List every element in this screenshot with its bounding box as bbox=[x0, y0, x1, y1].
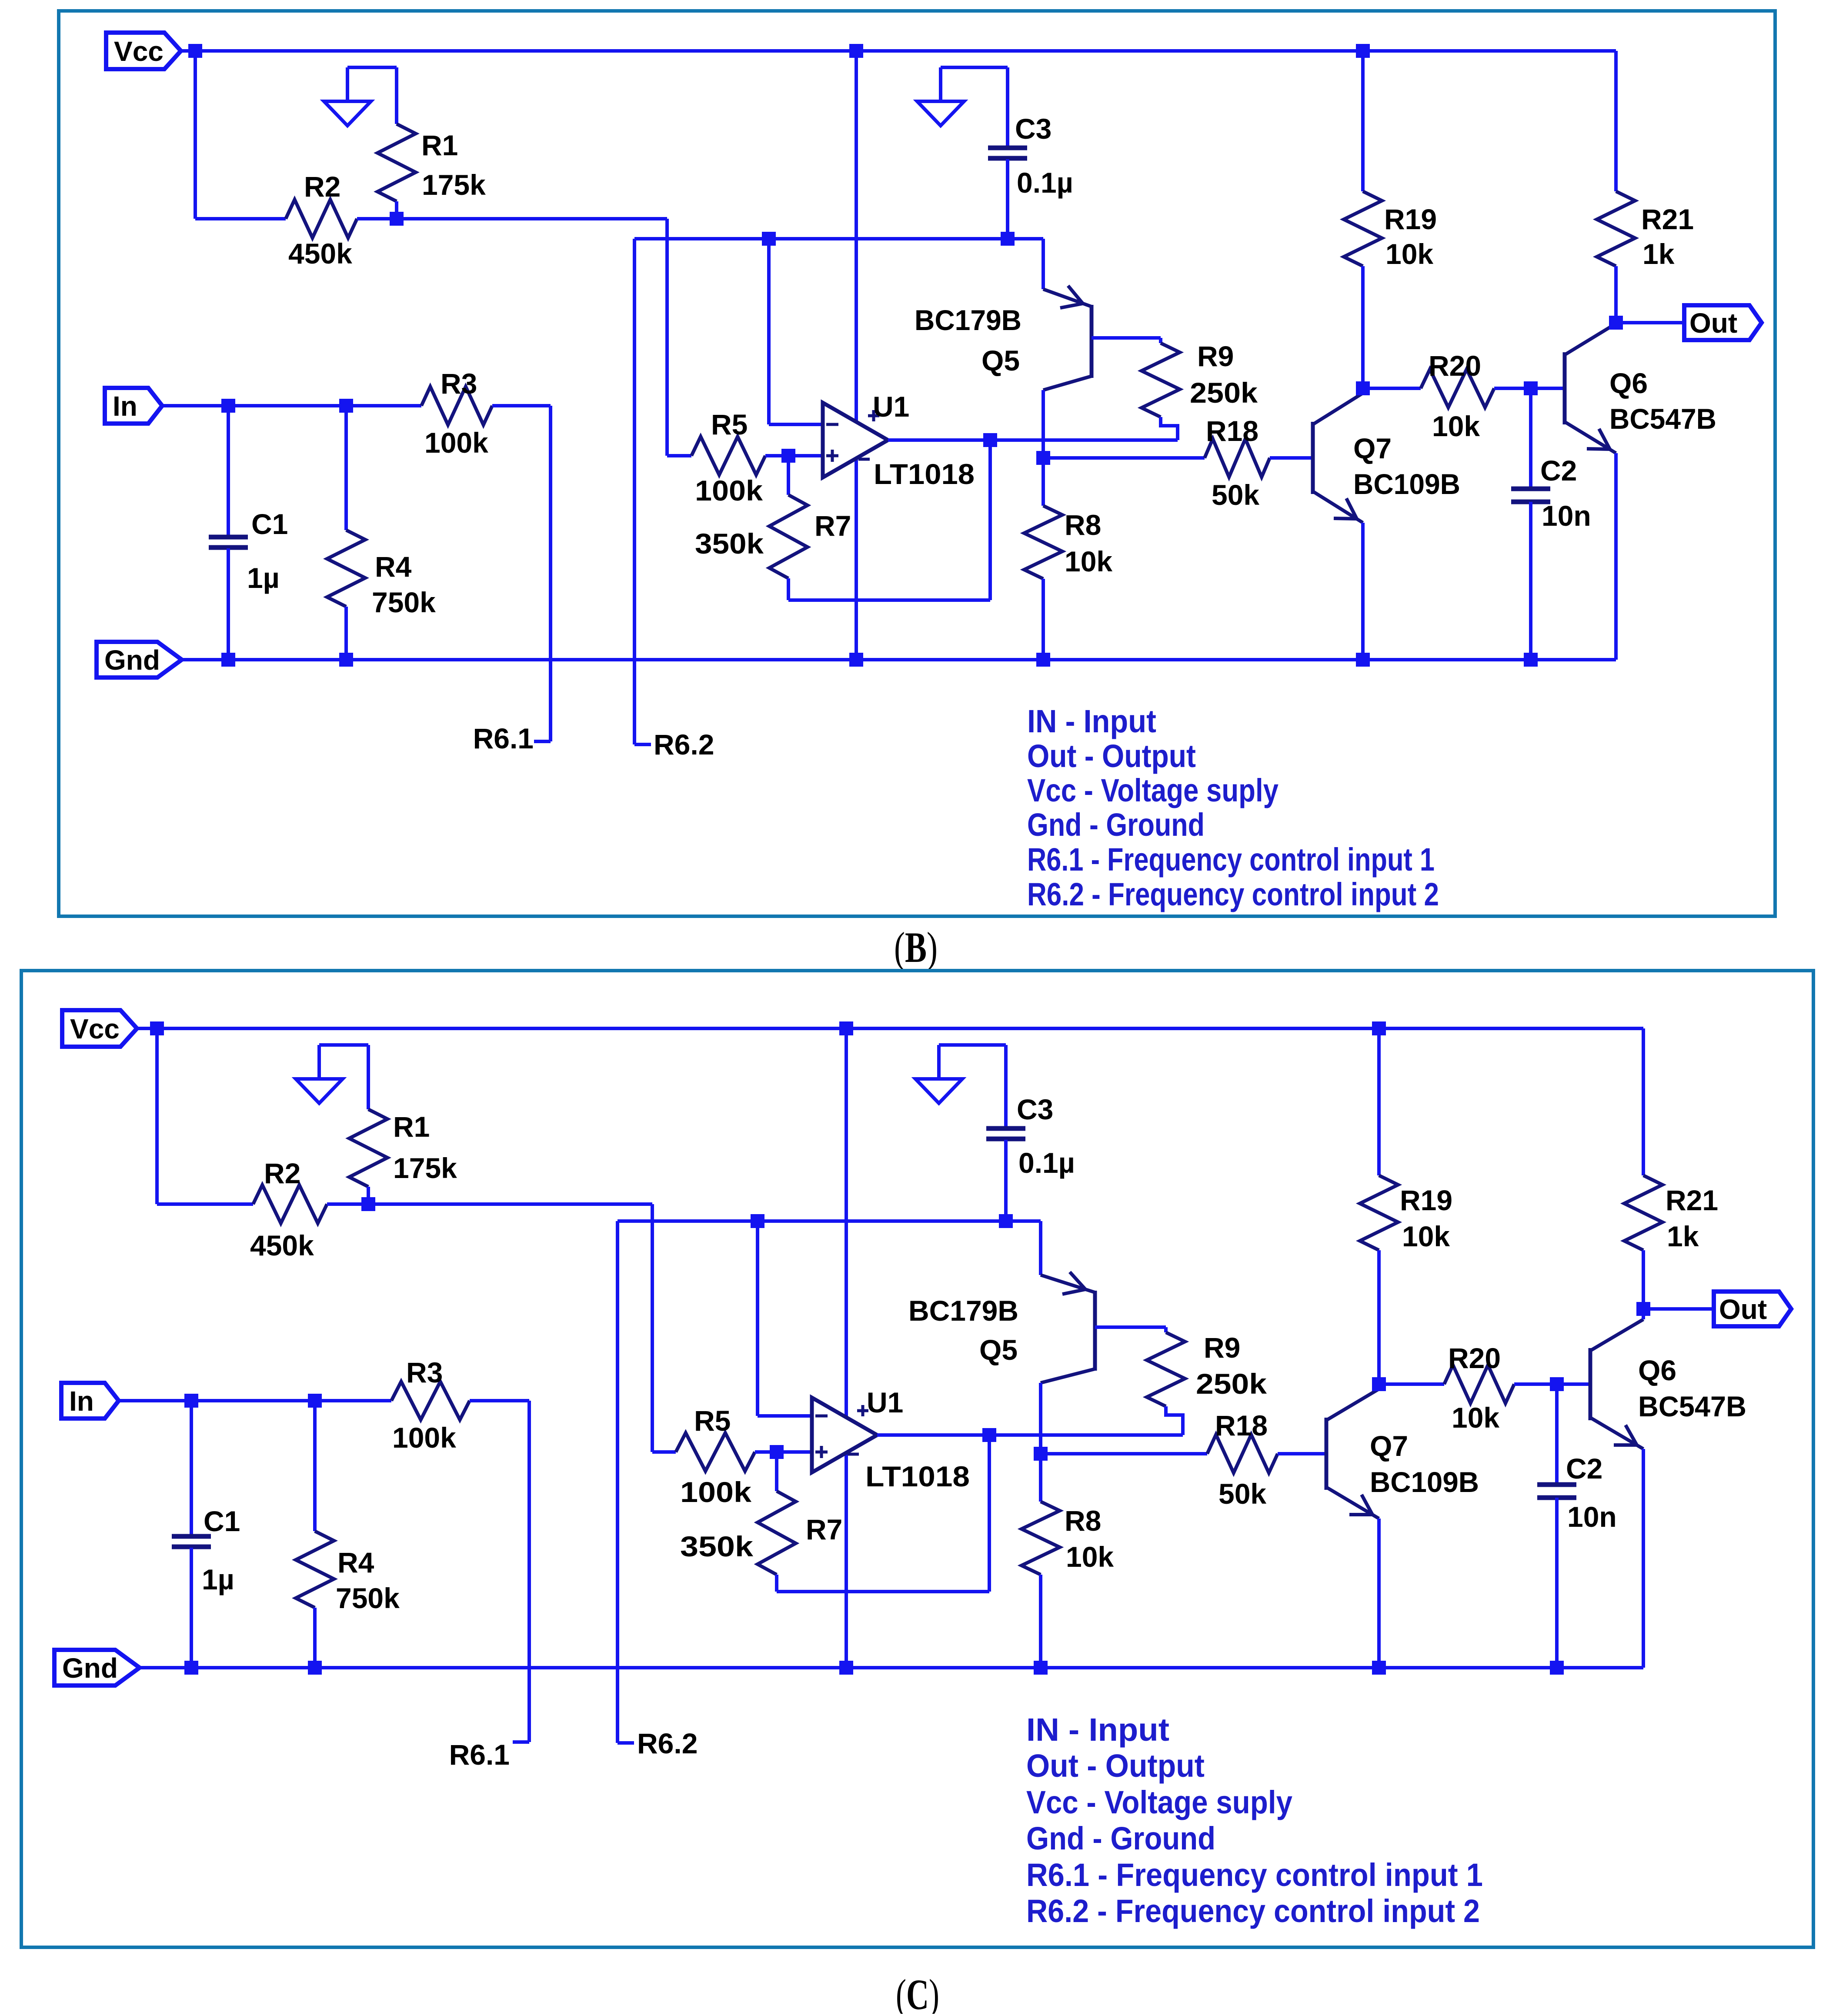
transistor Q5 BC179B bbox=[1090, 305, 1094, 378]
wire Q7 collector up bbox=[1377, 1384, 1381, 1389]
junction Q7 emitter / ground bbox=[1356, 653, 1370, 667]
junction rail2 / C3 bbox=[1001, 232, 1015, 246]
net flag Vcc bbox=[106, 33, 181, 69]
svg-text:LT1018: LT1018 bbox=[865, 1460, 970, 1492]
svg-text:U1: U1 bbox=[873, 391, 909, 423]
wire C3 bottom lead bbox=[1004, 1140, 1008, 1221]
svg-text:Gnd: Gnd bbox=[62, 1652, 118, 1684]
net flag Vcc bbox=[62, 1010, 137, 1047]
arrow symbol above C3 bbox=[915, 1045, 1006, 1103]
wire C2 bottom lead bbox=[1555, 1498, 1559, 1668]
wire R2 to corner bbox=[327, 1202, 652, 1206]
svg-text:Q7: Q7 bbox=[1370, 1430, 1408, 1462]
svg-text:R3: R3 bbox=[406, 1356, 443, 1389]
capacitor C1 bbox=[209, 537, 248, 547]
net flag In bbox=[105, 388, 162, 424]
op-amp U1 LT1018 bbox=[823, 403, 888, 477]
wire arrow to R1 bbox=[395, 67, 398, 124]
svg-text:LT1018: LT1018 bbox=[874, 458, 975, 490]
resistor R7 bbox=[769, 495, 808, 578]
wire Vcc top rail bbox=[181, 49, 1616, 53]
svg-text:C3: C3 bbox=[1017, 1093, 1053, 1125]
svg-text:R18: R18 bbox=[1206, 415, 1258, 447]
wire inverting input vertical bbox=[756, 1221, 759, 1416]
svg-text:350k: 350k bbox=[695, 527, 764, 560]
net flag Gnd bbox=[97, 642, 182, 678]
svg-text:BC109B: BC109B bbox=[1353, 468, 1460, 500]
svg-text:C1: C1 bbox=[204, 1505, 240, 1537]
svg-text:R7: R7 bbox=[815, 510, 851, 542]
wire R6.1 vertical bbox=[527, 1401, 531, 1742]
wire feedback up to output bbox=[988, 440, 992, 600]
svg-text:Q5: Q5 bbox=[979, 1334, 1018, 1366]
svg-text:100k: 100k bbox=[392, 1422, 456, 1454]
svg-text:10k: 10k bbox=[1065, 545, 1112, 577]
svg-text:R19: R19 bbox=[1384, 203, 1437, 235]
wire R21 top lead bbox=[1614, 51, 1618, 191]
wire C3 bottom lead bbox=[1006, 159, 1009, 239]
junction R2/R1 node bbox=[390, 212, 404, 226]
svg-text:50k: 50k bbox=[1218, 1478, 1266, 1510]
svg-text:In: In bbox=[69, 1385, 94, 1417]
transistor Q5 BC179B bbox=[1093, 1291, 1097, 1371]
svg-text:R19: R19 bbox=[1400, 1184, 1452, 1216]
svg-text:R21: R21 bbox=[1641, 203, 1694, 235]
junction Vcc rail / left drop bbox=[150, 1021, 164, 1035]
wire to R2 bbox=[157, 1202, 253, 1206]
wire C2 top lead bbox=[1555, 1384, 1559, 1485]
wire to Out flag bbox=[1616, 321, 1684, 324]
resistor R9 bbox=[1142, 343, 1180, 417]
resistor R18 bbox=[1207, 1435, 1278, 1473]
svg-text:R8: R8 bbox=[1065, 509, 1101, 541]
wire R7 top lead bbox=[787, 456, 790, 495]
wire to R18 bbox=[1043, 456, 1205, 460]
svg-text:R6.2 - Frequency control input: R6.2 - Frequency control input 2 bbox=[1026, 1893, 1480, 1929]
wire R7 top lead bbox=[775, 1452, 778, 1491]
svg-text:R4: R4 bbox=[375, 551, 412, 583]
resistor R2 bbox=[286, 200, 357, 238]
svg-text:BC547B: BC547B bbox=[1609, 403, 1716, 435]
wire R6.2 vertical bbox=[633, 239, 636, 744]
wire to Out flag bbox=[1643, 1307, 1714, 1311]
junction Q5 collector / R8 / R18 bbox=[1036, 451, 1050, 465]
wire R9 top lead bbox=[1159, 338, 1162, 343]
svg-text:350k: 350k bbox=[680, 1530, 753, 1562]
wire R4 top lead bbox=[344, 406, 348, 530]
junction feedback / output bbox=[983, 433, 997, 447]
junction C1 / ground bbox=[184, 1661, 198, 1675]
wire to R18 bbox=[1041, 1452, 1207, 1455]
wire Vcc top rail bbox=[137, 1027, 1643, 1030]
svg-text:R5: R5 bbox=[694, 1405, 731, 1437]
wire R6.2 tick bbox=[618, 1741, 634, 1745]
wire Q6 emitter down bbox=[1614, 453, 1618, 660]
svg-text:50k: 50k bbox=[1212, 479, 1259, 511]
svg-text:R9: R9 bbox=[1204, 1332, 1240, 1364]
svg-text:R6.2: R6.2 bbox=[637, 1727, 698, 1759]
svg-text:R1: R1 bbox=[421, 129, 458, 161]
svg-text:R8: R8 bbox=[1065, 1505, 1101, 1537]
svg-text:Q7: Q7 bbox=[1353, 432, 1392, 464]
wire R19 top lead bbox=[1361, 51, 1365, 191]
wire R19 bottom lead bbox=[1361, 266, 1365, 388]
wire R6.1 vertical bbox=[549, 406, 552, 741]
resistor R21 bbox=[1597, 191, 1635, 266]
wire R4 bottom lead bbox=[313, 1608, 317, 1668]
wire R6.2 tick bbox=[634, 743, 651, 746]
wire R21 top lead bbox=[1642, 1028, 1645, 1175]
resistor R7 bbox=[758, 1491, 796, 1575]
transistor Q6 BC547B bbox=[1563, 352, 1567, 424]
wire Q7 collector up bbox=[1361, 388, 1365, 393]
wire op-amp output bbox=[888, 438, 1178, 442]
junction R20 / C2 / Q6 base bbox=[1524, 381, 1538, 395]
wire R7 bottom lead bbox=[775, 1575, 778, 1592]
svg-text:0.1µ: 0.1µ bbox=[1018, 1147, 1075, 1179]
wire Q6 collector up bbox=[1642, 1309, 1645, 1319]
wire R6.2 vertical bbox=[616, 1221, 619, 1743]
wire ground rail bbox=[182, 658, 1616, 661]
wire In row bbox=[119, 1399, 391, 1402]
svg-text:10n: 10n bbox=[1567, 1501, 1617, 1533]
resistor R8 bbox=[1021, 1502, 1060, 1575]
wire R20 to Q6 base bbox=[1514, 1382, 1590, 1386]
svg-text:175k: 175k bbox=[393, 1152, 457, 1184]
wire corner down to R5 row bbox=[665, 219, 669, 456]
junction Q7 emitter / ground bbox=[1372, 1661, 1386, 1675]
wire R3 to corner bbox=[492, 404, 551, 407]
resistor R20 bbox=[1421, 369, 1494, 407]
junction rail2 / C3 bbox=[999, 1214, 1013, 1228]
wire C2 top lead bbox=[1529, 388, 1532, 489]
svg-text:R1: R1 bbox=[393, 1111, 430, 1143]
net flag Out bbox=[1714, 1292, 1791, 1326]
svg-text:Q6: Q6 bbox=[1609, 367, 1648, 399]
capacitor C2 bbox=[1537, 1485, 1576, 1498]
wire R19 top lead bbox=[1377, 1028, 1381, 1175]
junction In / C1 bbox=[184, 1394, 198, 1408]
wire R3 to corner bbox=[470, 1399, 529, 1402]
junction R2/R1 node bbox=[361, 1197, 375, 1211]
svg-text:450k: 450k bbox=[288, 237, 352, 270]
wire inverting input vertical bbox=[767, 239, 771, 424]
svg-text:R7: R7 bbox=[806, 1513, 842, 1545]
svg-text:1µ: 1µ bbox=[202, 1563, 234, 1595]
resistor R3 bbox=[391, 1382, 470, 1420]
wire to R5 bbox=[667, 454, 691, 457]
svg-text:BC179B: BC179B bbox=[915, 304, 1021, 336]
wire feedback bottom bbox=[777, 1590, 989, 1593]
wire In row bbox=[162, 404, 421, 407]
junction op-amp supply / ground bbox=[839, 1661, 853, 1675]
svg-text:(C): (C) bbox=[896, 1970, 939, 2014]
svg-text:IN - Input: IN - Input bbox=[1026, 1712, 1169, 1748]
resistor R2 bbox=[253, 1185, 327, 1223]
wire Q5 base to R9 bbox=[1095, 1325, 1166, 1329]
junction rail2 / inverting input drop bbox=[751, 1214, 764, 1228]
junction C2 / ground bbox=[1550, 1661, 1564, 1675]
svg-text:1µ: 1µ bbox=[247, 562, 280, 594]
junction In / C1 bbox=[221, 399, 235, 413]
svg-text:Vcc: Vcc bbox=[70, 1013, 120, 1045]
svg-text:Out: Out bbox=[1689, 307, 1737, 339]
capacitor C3 bbox=[986, 1128, 1025, 1139]
capacitor C1 bbox=[172, 1536, 211, 1547]
svg-text:1k: 1k bbox=[1667, 1220, 1699, 1252]
wire Q6 emitter down bbox=[1642, 1449, 1645, 1668]
resistor R21 bbox=[1624, 1175, 1662, 1250]
junction R21 / Out bbox=[1636, 1302, 1650, 1316]
wire Q5 emitter vertical bbox=[1039, 1221, 1042, 1275]
wire to R20 bbox=[1363, 387, 1421, 390]
wire Vcc drop to R2 row bbox=[155, 1028, 159, 1204]
svg-text:BC547B: BC547B bbox=[1638, 1390, 1746, 1422]
capacitor C3 bbox=[988, 148, 1027, 158]
svg-text:R6.2 - Frequency control input: R6.2 - Frequency control input 2 bbox=[1027, 876, 1439, 912]
svg-text:10k: 10k bbox=[1452, 1402, 1499, 1434]
wire feedback bottom bbox=[788, 598, 990, 602]
wire R20 to Q6 base bbox=[1494, 387, 1565, 390]
resistor R1 bbox=[349, 1109, 387, 1187]
junction R5/R7 node bbox=[781, 449, 795, 463]
svg-text:0.1µ: 0.1µ bbox=[1017, 167, 1073, 199]
wire C1 bottom lead bbox=[227, 548, 230, 660]
resistor R1 bbox=[377, 124, 416, 201]
svg-text:R18: R18 bbox=[1215, 1409, 1268, 1442]
wire R4 bottom lead bbox=[344, 607, 348, 660]
junction Vcc rail / R19 bbox=[1356, 44, 1370, 58]
wire R9 bottom jog bbox=[1161, 417, 1178, 440]
svg-text:Out - Output: Out - Output bbox=[1026, 1748, 1205, 1784]
svg-text:175k: 175k bbox=[422, 169, 486, 201]
wire R5 to non-inverting input bbox=[765, 454, 823, 457]
svg-text:C2: C2 bbox=[1540, 454, 1577, 487]
svg-text:R2: R2 bbox=[304, 170, 340, 203]
resistor R8 bbox=[1024, 506, 1062, 579]
junction Q5 collector / R8 / R18 bbox=[1034, 1447, 1048, 1461]
net flag Out bbox=[1684, 305, 1762, 340]
resistor R18 bbox=[1205, 439, 1270, 477]
svg-text:R6.1: R6.1 bbox=[473, 722, 534, 754]
junction R5/R7 node bbox=[770, 1445, 784, 1459]
resistor R5 bbox=[676, 1433, 755, 1471]
wire rail to C3 and Q5 bbox=[634, 237, 1043, 240]
svg-text:Gnd - Ground: Gnd - Ground bbox=[1026, 1820, 1215, 1856]
svg-text:C1: C1 bbox=[251, 508, 288, 540]
svg-text:450k: 450k bbox=[250, 1229, 314, 1262]
wire C1 top lead bbox=[190, 1401, 193, 1536]
transistor Q7 BC109B bbox=[1311, 422, 1315, 494]
wire corner down to R5 row bbox=[651, 1204, 654, 1452]
wire to inverting input bbox=[758, 1414, 812, 1418]
svg-text:C3: C3 bbox=[1015, 113, 1052, 145]
wire C3 top lead bbox=[1004, 1045, 1008, 1128]
junction Vcc rail / left drop bbox=[188, 44, 202, 58]
transistor Q6 BC547B bbox=[1589, 1348, 1592, 1420]
wire to R20 bbox=[1379, 1382, 1444, 1386]
junction C2 / ground bbox=[1524, 653, 1538, 667]
svg-text:10k: 10k bbox=[1402, 1220, 1450, 1252]
wire R8 bottom lead bbox=[1039, 1575, 1042, 1668]
svg-text:10k: 10k bbox=[1066, 1541, 1114, 1573]
svg-text:Vcc - Voltage suply: Vcc - Voltage suply bbox=[1027, 772, 1279, 808]
svg-text:Out - Output: Out - Output bbox=[1027, 738, 1196, 774]
svg-text:Out: Out bbox=[1719, 1294, 1767, 1325]
junction Vcc rail / op-amp supply bbox=[839, 1021, 853, 1035]
wire R8 top lead bbox=[1042, 458, 1045, 506]
svg-text:Q5: Q5 bbox=[981, 344, 1020, 377]
junction C1 / ground bbox=[221, 653, 235, 667]
junction op-amp supply / ground bbox=[849, 653, 863, 667]
svg-text:U1: U1 bbox=[867, 1386, 903, 1419]
resistor R19 bbox=[1360, 1175, 1398, 1250]
svg-text:R4: R4 bbox=[337, 1546, 374, 1579]
arrow symbol above C3 bbox=[917, 67, 1008, 126]
arrow symbol above R1 bbox=[296, 1045, 368, 1103]
svg-text:100k: 100k bbox=[424, 427, 488, 459]
svg-text:R20: R20 bbox=[1429, 350, 1481, 382]
wire Q5 emitter vertical bbox=[1042, 239, 1045, 289]
wire R18 to Q7 base bbox=[1270, 456, 1313, 460]
resistor R20 bbox=[1444, 1365, 1514, 1403]
resistor R19 bbox=[1344, 191, 1382, 266]
junction rail2 / inverting input drop bbox=[762, 232, 776, 246]
wire R7 bottom lead bbox=[787, 578, 790, 600]
junction feedback / output bbox=[982, 1428, 996, 1442]
svg-text:(B): (B) bbox=[894, 923, 938, 971]
svg-text:BC109B: BC109B bbox=[1370, 1466, 1479, 1498]
resistor R4 bbox=[296, 1531, 334, 1608]
wire Q7 emitter down bbox=[1361, 523, 1365, 660]
wire R1 to R2 node bbox=[367, 1187, 370, 1204]
wire C3 top lead bbox=[1006, 67, 1009, 148]
junction R8 / ground rail bbox=[1034, 1661, 1048, 1675]
wire R18 to Q7 base bbox=[1278, 1452, 1326, 1455]
wire feedback up to output bbox=[988, 1435, 991, 1592]
wire R2 to corner bbox=[357, 217, 667, 220]
resistor R5 bbox=[691, 437, 765, 475]
wire to R2 bbox=[195, 217, 286, 220]
op-amp U1 LT1018 bbox=[812, 1398, 877, 1472]
svg-text:R21: R21 bbox=[1666, 1184, 1718, 1216]
svg-text:R6.2: R6.2 bbox=[654, 728, 714, 761]
wire C1 top lead bbox=[227, 406, 230, 537]
junction R4 / ground bbox=[308, 1661, 322, 1675]
capacitor C2 bbox=[1511, 489, 1550, 502]
junction In / R4 bbox=[339, 399, 353, 413]
svg-text:Vcc - Voltage suply: Vcc - Voltage suply bbox=[1026, 1784, 1292, 1820]
resistor R9 bbox=[1147, 1332, 1185, 1406]
wire R4 top lead bbox=[313, 1401, 317, 1531]
svg-text:10k: 10k bbox=[1385, 238, 1433, 270]
svg-text:C2: C2 bbox=[1566, 1452, 1602, 1485]
svg-text:Vcc: Vcc bbox=[114, 36, 164, 67]
svg-text:10k: 10k bbox=[1432, 410, 1480, 442]
wire C1 bottom lead bbox=[190, 1548, 193, 1668]
svg-text:In: In bbox=[113, 391, 137, 422]
wire R19 bottom lead bbox=[1377, 1250, 1381, 1384]
svg-text:R6.1 - Frequency control input: R6.1 - Frequency control input 1 bbox=[1026, 1857, 1483, 1893]
junction R20 / C2 / Q6 base bbox=[1550, 1377, 1564, 1391]
svg-text:R20: R20 bbox=[1448, 1342, 1501, 1374]
wire op-amp supply vertical bbox=[855, 51, 858, 660]
svg-text:R3: R3 bbox=[441, 367, 477, 400]
wire rail to C3 and Q5 bbox=[618, 1219, 1041, 1223]
svg-text:250k: 250k bbox=[1190, 377, 1258, 409]
wire ground rail bbox=[140, 1666, 1643, 1669]
wire R6.1 tick bbox=[513, 1740, 529, 1744]
svg-text:750k: 750k bbox=[372, 586, 436, 618]
svg-text:100k: 100k bbox=[695, 474, 763, 507]
wire R6.1 tick bbox=[534, 740, 551, 743]
svg-text:R9: R9 bbox=[1197, 340, 1234, 372]
resistor R4 bbox=[327, 530, 365, 607]
junction Vcc rail / R19 bbox=[1372, 1021, 1386, 1035]
svg-text:1k: 1k bbox=[1642, 238, 1675, 270]
wire R5 to non-inverting input bbox=[755, 1450, 812, 1454]
svg-text:R6.1 - Frequency control input: R6.1 - Frequency control input 1 bbox=[1027, 841, 1435, 878]
junction R19 / R20 / Q7 collector bbox=[1372, 1377, 1386, 1391]
wire op-amp output bbox=[877, 1433, 1183, 1437]
wire Q5 base to R9 bbox=[1092, 336, 1161, 340]
arrow symbol above R1 bbox=[324, 67, 397, 126]
wire to inverting input bbox=[769, 423, 823, 426]
svg-text:10n: 10n bbox=[1542, 500, 1591, 532]
resistor R3 bbox=[421, 387, 492, 425]
wire to R5 bbox=[652, 1450, 676, 1454]
junction In / R4 bbox=[308, 1394, 322, 1408]
wire arrow to R1 bbox=[367, 1045, 370, 1109]
wire op-amp supply vertical bbox=[845, 1028, 848, 1668]
svg-text:250k: 250k bbox=[1196, 1368, 1267, 1400]
wire Q7 emitter down bbox=[1377, 1519, 1381, 1668]
svg-text:R6.1: R6.1 bbox=[449, 1739, 510, 1771]
transistor Q7 BC109B bbox=[1325, 1418, 1329, 1490]
junction R8 / ground rail bbox=[1036, 653, 1050, 667]
wire R21 bottom lead bbox=[1614, 266, 1618, 323]
svg-text:Q6: Q6 bbox=[1638, 1354, 1676, 1386]
svg-text:Gnd - Ground: Gnd - Ground bbox=[1027, 807, 1205, 843]
wire R8 bottom lead bbox=[1042, 579, 1045, 660]
wire R8 top lead bbox=[1039, 1454, 1042, 1502]
wire R21 bottom lead bbox=[1642, 1250, 1645, 1309]
svg-text:IN - Input: IN - Input bbox=[1027, 703, 1156, 739]
svg-text:R2: R2 bbox=[264, 1157, 300, 1189]
net flag Gnd bbox=[54, 1650, 140, 1686]
wire C2 bottom lead bbox=[1529, 502, 1532, 660]
junction R21 / Out bbox=[1609, 316, 1623, 330]
junction Vcc rail / op-amp supply bbox=[849, 44, 863, 58]
wire R9 bottom jog bbox=[1166, 1406, 1183, 1435]
wire R9 top lead bbox=[1164, 1327, 1168, 1332]
wire Q5 collector down bbox=[1042, 390, 1045, 458]
svg-text:100k: 100k bbox=[680, 1476, 751, 1508]
wire Q6 collector up bbox=[1614, 323, 1618, 324]
wire R1 to R2 node bbox=[395, 201, 398, 219]
svg-text:BC179B: BC179B bbox=[908, 1295, 1018, 1327]
wire Vcc drop to R2 row bbox=[194, 51, 197, 219]
svg-text:R5: R5 bbox=[711, 408, 748, 441]
junction R19 / R20 / Q7 collector bbox=[1356, 381, 1370, 395]
net flag In bbox=[61, 1383, 119, 1419]
svg-text:750k: 750k bbox=[336, 1582, 400, 1614]
wire Q5 collector down bbox=[1039, 1383, 1042, 1454]
junction R4 / ground bbox=[339, 653, 353, 667]
svg-text:Gnd: Gnd bbox=[104, 644, 160, 676]
